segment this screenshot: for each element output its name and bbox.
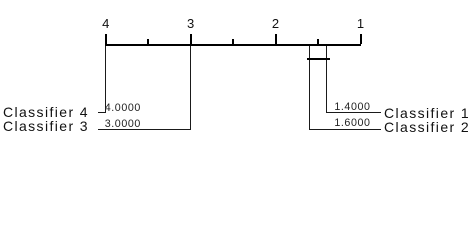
text Classifier 1 xyxy=(384,107,470,120)
text Classifier 2 xyxy=(384,121,470,134)
tick 4 xyxy=(105,34,107,44)
tick 2 xyxy=(275,34,277,44)
text Classifier 4 xyxy=(3,106,89,119)
tick 1.5 xyxy=(317,39,319,43)
clique bar connecting classifier 1 and classifier 2 xyxy=(307,58,330,61)
tick 2.5 xyxy=(232,39,234,43)
tick label 2 xyxy=(266,19,286,29)
text Classifier 3 xyxy=(3,120,89,133)
tick label 4 xyxy=(96,19,116,29)
drop line classifier 2 (rank 1.6) xyxy=(309,46,310,130)
axis main line xyxy=(105,44,362,46)
tick 3 xyxy=(190,34,192,44)
label line classifier 2 xyxy=(309,129,381,130)
label line classifier 4 xyxy=(98,112,106,113)
tick label 1 xyxy=(351,19,371,29)
tick 3.5 xyxy=(147,39,149,43)
drop line classifier 1 (rank 1.4) xyxy=(326,46,327,113)
rank value 4.0000 xyxy=(105,104,141,113)
tick 1 xyxy=(360,34,362,44)
drop line classifier 4 (rank 4.0) xyxy=(105,46,106,113)
rank value 1.4000 xyxy=(334,103,370,112)
rank value 3.0000 xyxy=(105,120,141,129)
label line classifier 3 xyxy=(98,129,191,130)
label line classifier 1 xyxy=(326,112,381,113)
drop line classifier 3 (rank 3.0) xyxy=(190,46,191,130)
rank value 1.6000 xyxy=(334,119,370,128)
tick label 3 xyxy=(181,19,201,29)
